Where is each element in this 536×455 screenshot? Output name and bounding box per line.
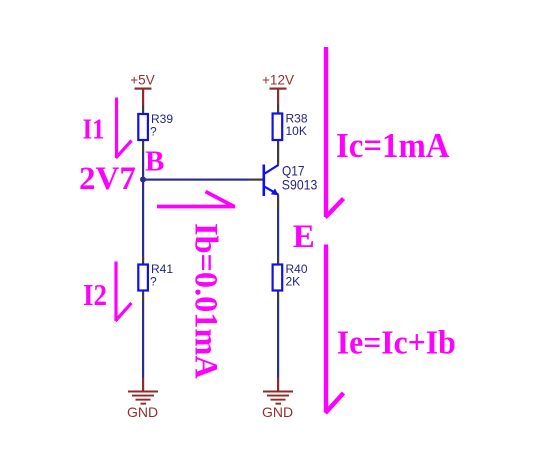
svg-text:E: E bbox=[293, 219, 315, 255]
svg-text:2K: 2K bbox=[286, 275, 301, 289]
svg-text:2V7: 2V7 bbox=[79, 161, 136, 197]
svg-text:GND: GND bbox=[127, 404, 158, 420]
svg-text:GND: GND bbox=[262, 404, 293, 420]
svg-text:+5V: +5V bbox=[130, 73, 154, 88]
svg-text:Ie=Ic+Ib: Ie=Ic+Ib bbox=[337, 325, 456, 362]
svg-text:I1: I1 bbox=[83, 114, 105, 145]
svg-text:Ic=1mA: Ic=1mA bbox=[336, 127, 450, 165]
svg-text:I2: I2 bbox=[83, 277, 107, 312]
svg-text:Ib=0.01mA: Ib=0.01mA bbox=[189, 223, 225, 379]
svg-text:S9013: S9013 bbox=[282, 176, 318, 192]
svg-text:?: ? bbox=[150, 125, 157, 139]
svg-text:+12V: +12V bbox=[262, 73, 294, 88]
svg-text:B: B bbox=[145, 145, 164, 177]
svg-text:10K: 10K bbox=[286, 124, 307, 138]
svg-text:?: ? bbox=[150, 275, 157, 289]
